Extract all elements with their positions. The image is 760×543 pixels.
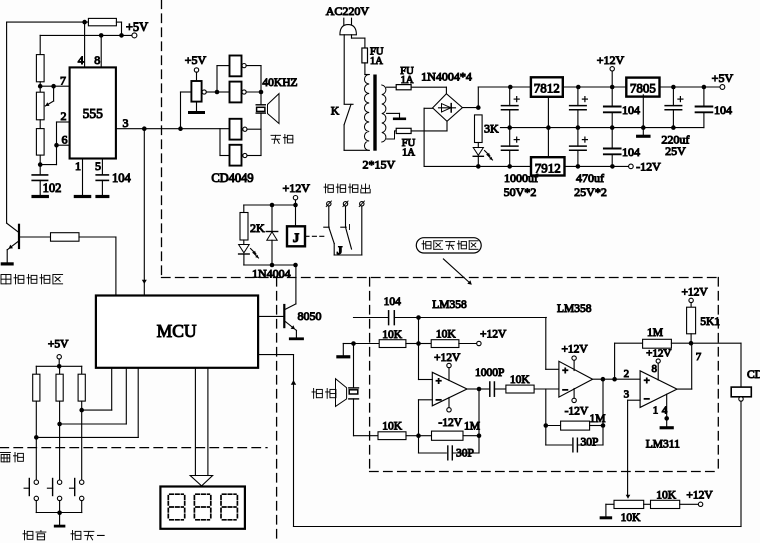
svg-text:-12V: -12V — [636, 160, 661, 174]
svg-text:+: + — [562, 365, 568, 377]
svg-text:470uf: 470uf — [576, 171, 604, 185]
svg-text:+5V: +5V — [712, 71, 734, 85]
svg-text:1: 1 — [653, 405, 659, 417]
svg-text:25V*2: 25V*2 — [574, 185, 607, 199]
svg-text:5K1: 5K1 — [700, 316, 720, 328]
svg-text:7: 7 — [60, 74, 66, 88]
svg-text:7912: 7912 — [535, 161, 561, 176]
svg-text:+12V: +12V — [480, 329, 507, 341]
svg-text:3: 3 — [624, 389, 630, 401]
svg-text:1000P: 1000P — [475, 367, 504, 379]
svg-text:104: 104 — [112, 171, 132, 185]
svg-text:+5V: +5V — [126, 20, 148, 34]
svg-text:AC220V: AC220V — [326, 4, 370, 18]
svg-text:+12V: +12V — [597, 53, 625, 67]
svg-text:K: K — [331, 106, 340, 118]
svg-text:10K: 10K — [382, 421, 403, 433]
svg-text:-12V: -12V — [565, 406, 589, 418]
svg-text:+5V: +5V — [185, 53, 207, 67]
svg-text:J: J — [293, 230, 300, 245]
svg-text:5: 5 — [95, 159, 101, 173]
svg-text:+12V: +12V — [681, 287, 708, 299]
svg-text:8050: 8050 — [298, 309, 322, 323]
svg-text:50V*2: 50V*2 — [504, 185, 537, 199]
svg-text:555: 555 — [83, 106, 104, 121]
svg-text:−: − — [644, 393, 650, 405]
svg-text:CD4049: CD4049 — [211, 171, 253, 185]
svg-text:+5V: +5V — [48, 339, 69, 351]
svg-text:+12V: +12V — [282, 181, 310, 195]
svg-text:6: 6 — [62, 133, 68, 147]
svg-text:4: 4 — [78, 53, 84, 67]
svg-text:104: 104 — [384, 296, 402, 308]
svg-text:1A: 1A — [370, 56, 383, 67]
svg-text:104: 104 — [622, 103, 640, 117]
svg-text:2K: 2K — [250, 221, 265, 235]
svg-text:10K: 10K — [656, 490, 677, 502]
svg-text:104: 104 — [714, 103, 732, 117]
svg-text:104: 104 — [622, 145, 640, 159]
svg-text:+12V: +12V — [646, 348, 671, 360]
svg-text:−: − — [436, 394, 442, 406]
svg-text:CD4: CD4 — [747, 369, 760, 381]
svg-text:MCU: MCU — [157, 321, 197, 341]
svg-text:+12V: +12V — [561, 344, 588, 356]
svg-text:25V: 25V — [665, 144, 686, 158]
svg-text:−: − — [562, 385, 568, 397]
svg-text:1A: 1A — [401, 75, 414, 86]
svg-text:LM358: LM358 — [432, 299, 467, 311]
svg-text:1: 1 — [75, 159, 81, 173]
svg-text:30P: 30P — [581, 437, 599, 449]
svg-text:10K: 10K — [436, 329, 457, 341]
svg-text:J: J — [337, 243, 343, 257]
svg-text:-12V: -12V — [438, 417, 462, 429]
svg-text:+: + — [644, 375, 650, 387]
svg-text:8: 8 — [652, 363, 658, 375]
svg-text:1M: 1M — [647, 327, 663, 339]
svg-text:102: 102 — [43, 181, 62, 195]
svg-text:2*15V: 2*15V — [362, 158, 395, 172]
svg-text:LM358: LM358 — [557, 303, 592, 315]
svg-text:2: 2 — [624, 368, 630, 380]
svg-text:+12V: +12V — [686, 490, 713, 502]
svg-text:LM311: LM311 — [646, 439, 680, 451]
svg-text:1M: 1M — [464, 421, 480, 433]
svg-text:1N4004: 1N4004 — [252, 267, 291, 281]
svg-text:40KHZ: 40KHZ — [262, 77, 297, 89]
svg-text:2: 2 — [61, 109, 67, 123]
svg-text:3K: 3K — [484, 122, 499, 136]
svg-text:3: 3 — [123, 116, 129, 130]
svg-text:+: + — [436, 375, 442, 387]
svg-text:7812: 7812 — [534, 81, 560, 96]
svg-text:10K: 10K — [382, 329, 403, 341]
svg-text:8: 8 — [94, 53, 100, 67]
svg-text:10K: 10K — [621, 512, 642, 524]
svg-text:10K: 10K — [510, 374, 531, 386]
svg-text:1N4004*4: 1N4004*4 — [421, 70, 472, 84]
svg-text:30P: 30P — [456, 448, 474, 460]
svg-text:+12V: +12V — [434, 352, 461, 364]
svg-text:1000uf: 1000uf — [504, 171, 538, 185]
svg-text:1A: 1A — [402, 148, 415, 159]
svg-text:7805: 7805 — [630, 81, 656, 96]
svg-text:4: 4 — [662, 405, 668, 417]
svg-text:7: 7 — [696, 351, 702, 363]
